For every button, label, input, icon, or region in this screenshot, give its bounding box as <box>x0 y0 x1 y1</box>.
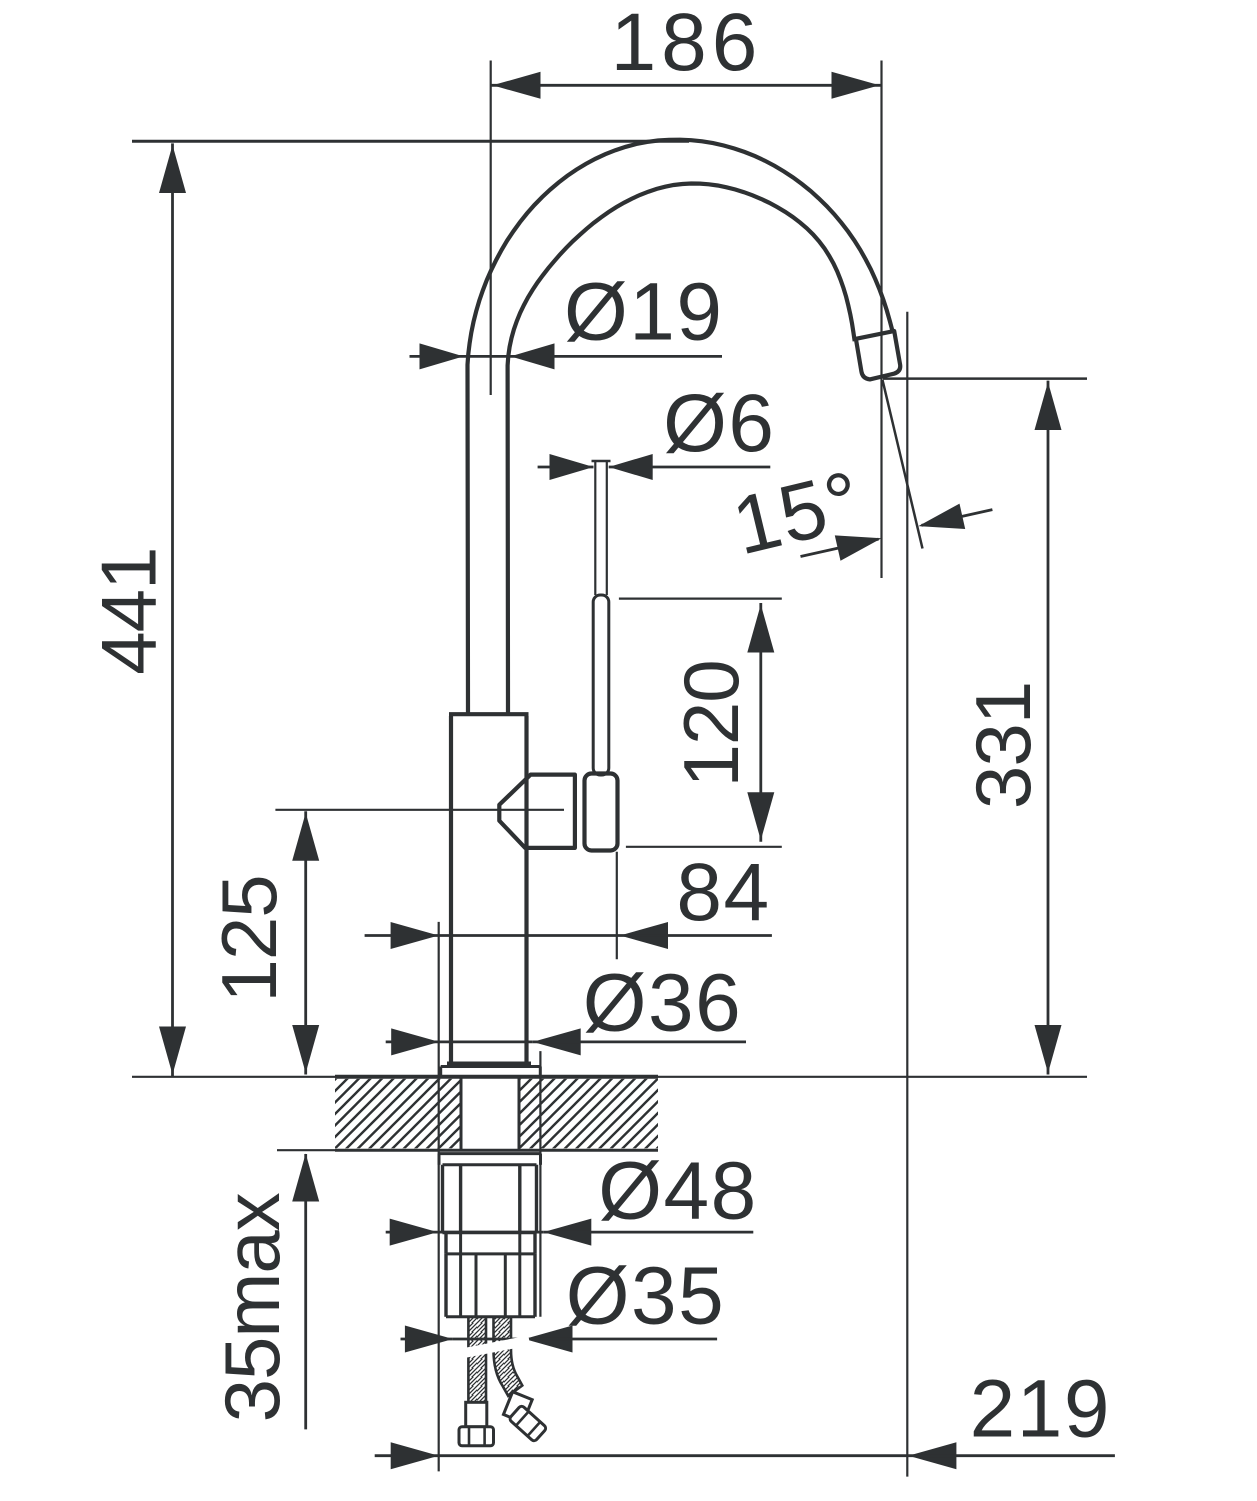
node dim35 <box>401 1338 453 1341</box>
node dim84 <box>365 934 439 937</box>
wire ext <box>132 140 689 143</box>
wire <box>468 140 893 716</box>
svg-text:35max: 35max <box>208 1192 296 1422</box>
node dim15 <box>801 539 879 556</box>
svg-text:441: 441 <box>85 548 173 675</box>
node dim120 <box>759 603 762 842</box>
svg-text:186: 186 <box>611 0 763 88</box>
svg-text:Ø35: Ø35 <box>566 1251 726 1342</box>
svg-text:125: 125 <box>205 875 293 1002</box>
svg-text:84: 84 <box>676 847 770 938</box>
svg-text:Ø48: Ø48 <box>598 1146 758 1237</box>
svg-text:Ø19: Ø19 <box>564 267 724 358</box>
node dim186 <box>491 84 882 87</box>
node dim35max <box>304 1154 307 1429</box>
node dim19 <box>410 355 464 358</box>
node dim441 <box>171 143 174 1076</box>
svg-text:331: 331 <box>959 682 1047 809</box>
node dim6 <box>538 466 594 469</box>
node dim48 <box>386 1231 438 1234</box>
node dim219 <box>375 1454 439 1457</box>
node dim36 <box>386 1041 440 1044</box>
svg-text:219: 219 <box>970 1363 1111 1454</box>
svg-text:120: 120 <box>667 660 755 787</box>
wire hoses <box>468 1317 486 1403</box>
svg-text:Ø6: Ø6 <box>663 378 775 469</box>
node dim125 <box>304 811 307 1074</box>
svg-text:Ø36: Ø36 <box>583 958 743 1049</box>
node dim331 <box>1047 381 1050 1075</box>
